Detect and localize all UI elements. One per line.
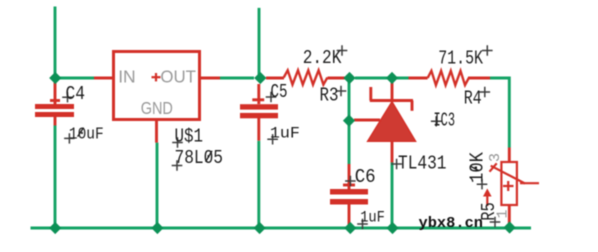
svg-text:C4: C4 <box>66 83 86 105</box>
svg-text:C5: C5 <box>271 81 288 103</box>
svg-text:3: 3 <box>487 153 504 162</box>
svg-text:1: 1 <box>495 209 512 218</box>
svg-text:78L05: 78L05 <box>175 147 224 169</box>
svg-text:2.2K: 2.2K <box>303 47 342 69</box>
svg-text:OUT: OUT <box>160 67 196 87</box>
svg-text:R4: R4 <box>464 88 482 110</box>
svg-text:U$1: U$1 <box>175 125 204 147</box>
svg-text:IN: IN <box>118 67 136 87</box>
svg-text:1uF: 1uF <box>360 208 385 226</box>
svg-text:TL431: TL431 <box>398 153 447 175</box>
svg-text:ybx8.cn: ybx8.cn <box>419 215 484 232</box>
svg-text:R3: R3 <box>320 85 339 107</box>
svg-text:C6: C6 <box>355 166 376 188</box>
svg-text:GND: GND <box>141 98 173 118</box>
svg-text:10K: 10K <box>467 151 489 183</box>
svg-text:10uF: 10uF <box>69 125 104 144</box>
svg-text:1uF: 1uF <box>270 124 300 142</box>
svg-text:71.5K: 71.5K <box>438 48 483 70</box>
svg-text:IC3: IC3 <box>434 109 456 131</box>
